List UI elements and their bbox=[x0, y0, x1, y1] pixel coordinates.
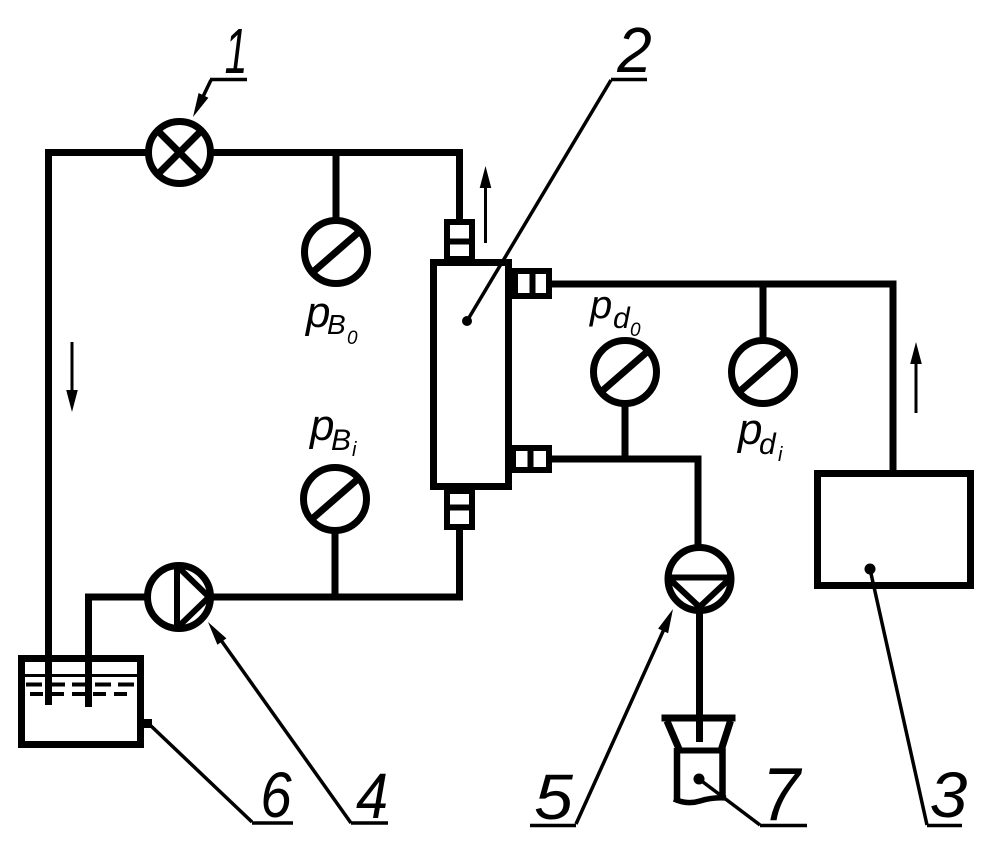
label 6 leader bbox=[150, 725, 252, 822]
wire bottom horizontal bbox=[85, 594, 463, 601]
pump 5 bbox=[666, 548, 733, 611]
gauge pd0 bbox=[594, 341, 657, 404]
box 3 bbox=[818, 474, 971, 586]
beaker 7 top edge bbox=[677, 748, 724, 754]
gauge pB0 bbox=[305, 221, 368, 284]
funnel 7 left side bbox=[667, 721, 679, 749]
svg-text:3: 3 bbox=[930, 759, 968, 831]
wire top horizontal line bbox=[45, 149, 463, 156]
label 5 bbox=[534, 762, 574, 834]
gauge pdi stem bbox=[760, 281, 767, 342]
wire tank to pump corner bbox=[85, 594, 92, 708]
column 2 bottom pipe bbox=[456, 527, 463, 600]
column 2 top-right port bbox=[515, 268, 549, 299]
label 2 leader with dot bbox=[462, 80, 611, 326]
gauge pB0 stem bbox=[333, 149, 340, 224]
label 4 underline bbox=[351, 821, 388, 825]
label 7 leader with dot bbox=[694, 774, 761, 826]
flow arrow up (column outlet) bbox=[480, 166, 492, 243]
wire middle-right horizontal bbox=[549, 456, 702, 463]
label 2 bbox=[616, 15, 652, 86]
pump 4 bbox=[148, 564, 211, 630]
gauge pdi bbox=[732, 341, 795, 404]
beaker 7 right wall bbox=[719, 748, 726, 799]
label 6 bbox=[260, 759, 292, 831]
tank 6 bbox=[22, 659, 153, 745]
funnel 7 rim bbox=[662, 715, 736, 722]
label 5 underline bbox=[530, 824, 576, 828]
tank left dip pipe bbox=[45, 660, 52, 705]
pump 5 inlet/outlet pipe bbox=[696, 549, 703, 742]
svg-text:1: 1 bbox=[225, 16, 248, 87]
label 5 leader arrow bbox=[576, 609, 673, 824]
column 2 bottom-right port bbox=[513, 445, 549, 473]
beaker 7 left wall bbox=[674, 748, 681, 801]
label 3 underline bbox=[927, 824, 962, 828]
flow arrow up (right side) bbox=[910, 342, 922, 413]
wire right top horizontal bbox=[549, 281, 897, 288]
tank right dip pipe bbox=[85, 660, 92, 707]
label 3 leader with dot bbox=[865, 564, 928, 826]
gauge pd0 stem bbox=[622, 403, 629, 462]
svg-text:4: 4 bbox=[356, 760, 388, 831]
label 7 bbox=[762, 753, 803, 837]
label 1 underline bbox=[210, 78, 247, 82]
label 2 underline bbox=[611, 78, 647, 82]
valve 1 bbox=[149, 122, 211, 184]
label 1 bbox=[225, 16, 248, 87]
label 1 leader arrow bbox=[193, 80, 211, 117]
gauge pBi stem bbox=[332, 529, 339, 600]
label 3 bbox=[930, 759, 968, 831]
funnel 7 right side bbox=[722, 721, 731, 749]
label 4 bbox=[356, 760, 388, 831]
beaker 7 wavy bottom bbox=[674, 798, 726, 803]
flow arrow down (left side) bbox=[66, 342, 78, 412]
label 4 leader arrow bbox=[208, 622, 351, 823]
label 6 underline bbox=[252, 821, 293, 825]
svg-text:2: 2 bbox=[616, 15, 652, 86]
wire right vertical to box 3 bbox=[890, 281, 897, 473]
column 2 top pipe bbox=[456, 149, 463, 222]
column 2 bottom stub fitting bbox=[444, 491, 475, 527]
svg-text:6: 6 bbox=[260, 759, 292, 831]
label 7 underline bbox=[760, 824, 807, 828]
column 2 body bbox=[434, 263, 509, 487]
column 2 top stub fitting bbox=[444, 222, 475, 259]
wire left vertical line bbox=[45, 149, 52, 705]
svg-text:7: 7 bbox=[762, 753, 803, 837]
gauge pBi bbox=[304, 468, 367, 531]
svg-text:5: 5 bbox=[534, 762, 574, 834]
wire down to pump 5 bbox=[695, 456, 702, 550]
